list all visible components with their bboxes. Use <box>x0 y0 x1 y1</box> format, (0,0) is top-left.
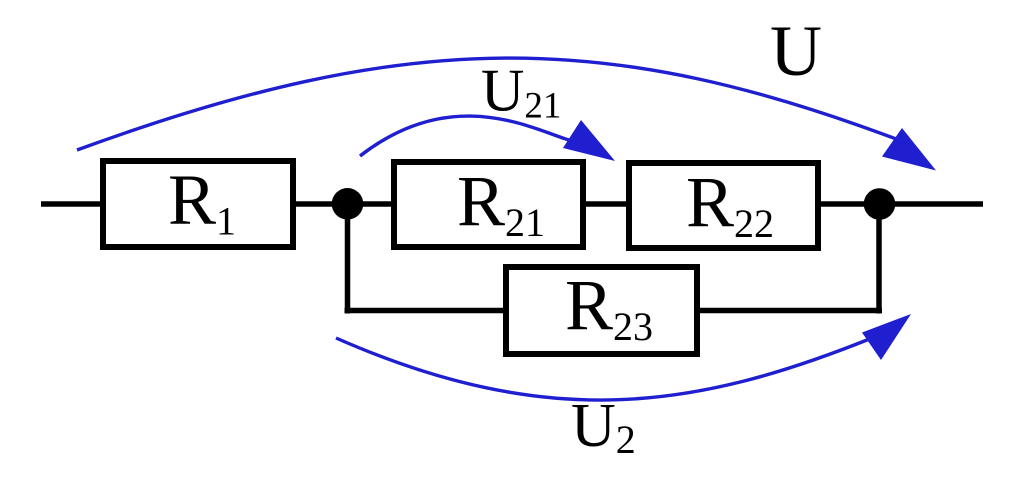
svg-text:R23: R23 <box>565 265 653 349</box>
svg-text:R22: R22 <box>686 162 774 246</box>
svg-text:U: U <box>770 11 822 91</box>
svg-text:R1: R1 <box>168 160 236 244</box>
svg-text:U2: U2 <box>571 392 636 462</box>
svg-text:R21: R21 <box>457 161 545 245</box>
svg-text:U21: U21 <box>481 58 561 127</box>
